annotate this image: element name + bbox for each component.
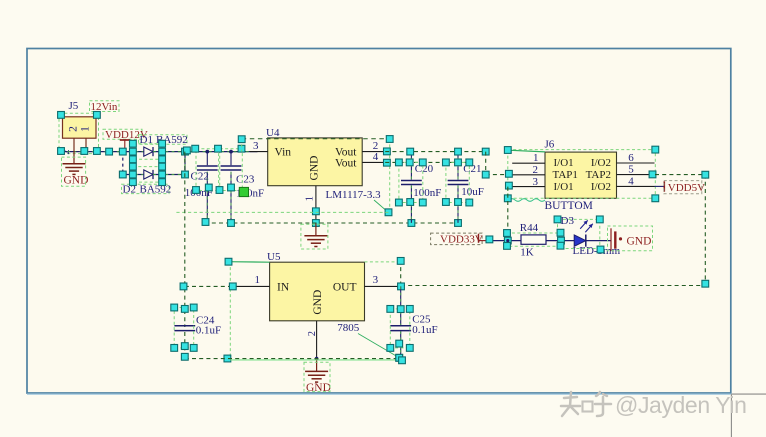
wire 3V3 row: [385, 151, 486, 153]
connector J6 body: [545, 152, 617, 198]
diode D1: [144, 147, 153, 156]
net label 12Vin: [90, 101, 120, 112]
wire handle at J6 feed: [482, 171, 489, 178]
ground rail handles: [202, 219, 209, 226]
svg-text:C22: C22: [191, 171, 209, 183]
svg-text:@Jayden Yin: @Jayden Yin: [615, 392, 746, 418]
wire J5 to diodes: [61, 151, 144, 153]
svg-text:BUTTOM: BUTTOM: [545, 200, 593, 212]
junction U5 pin2 bottom: [315, 357, 319, 361]
svg-text:1: 1: [305, 196, 316, 201]
wire D2 cathode: [153, 174, 185, 176]
svg-text:C23: C23: [236, 173, 255, 185]
C25 selection box: [390, 309, 410, 348]
power port VDD5V: [655, 185, 665, 187]
junction at R44 input: [506, 239, 509, 242]
C25 handles: [387, 306, 394, 313]
U5 selection handles: [225, 258, 232, 265]
sheet border: [27, 49, 731, 394]
connector J5 body: [63, 117, 97, 138]
C22 C23 selection boxes: [196, 149, 219, 191]
ground symbol below U5: [316, 359, 318, 372]
svg-text:BA592: BA592: [140, 183, 172, 195]
wire left rail vertical: [184, 152, 186, 327]
J6 pin lines left: [512, 162, 545, 164]
svg-text:VDD5V: VDD5V: [668, 182, 705, 194]
svg-text:R44: R44: [520, 222, 539, 234]
diode D2 label: [122, 184, 170, 193]
U4 pin 2 line: [362, 151, 385, 153]
wire R44 to LED: [546, 240, 574, 242]
svg-text:1: 1: [79, 126, 91, 132]
svg-text:TAP1: TAP1: [553, 169, 578, 181]
LED D3: [574, 235, 586, 246]
U4 pin 3 line: [250, 151, 268, 153]
svg-text:I/O1: I/O1: [554, 181, 574, 193]
svg-text:6: 6: [628, 152, 634, 164]
power port VDD12V label: [103, 129, 142, 139]
wire ground rail upper: [176, 211, 390, 213]
diode selection boxes: [133, 144, 162, 160]
svg-text:Vin: Vin: [275, 147, 292, 159]
svg-text:U4: U4: [266, 127, 280, 139]
U4 pointer line: [374, 200, 388, 212]
svg-text:I/O2: I/O2: [591, 181, 611, 193]
C24 handles: [171, 304, 178, 311]
capacitor C20: [410, 152, 412, 180]
svg-text:OUT: OUT: [333, 282, 357, 294]
wire branch down to D2: [122, 152, 124, 175]
diode D1 label: [139, 135, 188, 145]
diode selection handles: [119, 148, 126, 155]
svg-text:7805: 7805: [337, 322, 360, 334]
svg-text:I/O1: I/O1: [554, 157, 574, 169]
svg-text:VDD33V: VDD33V: [440, 234, 483, 246]
svg-text:U5: U5: [267, 251, 281, 263]
svg-text:2: 2: [67, 126, 79, 132]
U4 selection box: [242, 138, 390, 140]
J5 selection box: [59, 113, 99, 153]
U5 ground selection box: [304, 362, 330, 391]
regulator U5 body: [270, 262, 365, 321]
svg-text:TAP2: TAP2: [586, 169, 611, 181]
ground symbol below U4: [315, 223, 317, 236]
J5 selection handles: [58, 112, 65, 119]
wire down to J6 pin2: [485, 152, 487, 175]
wire C25 top stub: [400, 260, 402, 286]
U5 pin 1 wire: [233, 285, 270, 287]
svg-text:GND: GND: [627, 236, 652, 248]
J6 selection box: [508, 150, 656, 199]
svg-text:J6: J6: [545, 139, 555, 151]
ground symbol at J5: [73, 151, 75, 164]
svg-text:100nF: 100nF: [413, 187, 441, 199]
diode D2: [144, 170, 153, 179]
wire into D2: [123, 174, 144, 176]
C24 selection box: [174, 308, 194, 348]
power port GND bar right: [610, 228, 612, 251]
svg-text:D3: D3: [561, 215, 575, 227]
junction node B: [229, 150, 233, 154]
R44 selection box: [507, 233, 560, 246]
GND bar selection box: [608, 226, 653, 251]
svg-text:10uF: 10uF: [461, 186, 484, 198]
watermark: [561, 392, 611, 416]
wire 5V net: [655, 174, 705, 176]
capacitor C21: [457, 152, 459, 180]
GND selection box: [62, 157, 86, 186]
J6 pin lines right: [617, 162, 655, 164]
svg-text:Vout: Vout: [335, 158, 357, 170]
svg-text:1K: 1K: [520, 246, 534, 258]
capacitor C22: [206, 152, 208, 166]
regulator U4 body: [268, 138, 363, 186]
wavy line under J6: [509, 199, 545, 202]
U5 pin 3 wire: [365, 285, 402, 287]
wire D2 up to node: [184, 152, 186, 175]
capacitor C25: [400, 286, 402, 325]
LED arrows: [580, 220, 588, 228]
svg-text:GND: GND: [309, 156, 321, 181]
U5 pin 2 line: [316, 321, 318, 359]
svg-text:0.1uF: 0.1uF: [412, 324, 437, 336]
svg-text:0.1uF: 0.1uF: [196, 324, 221, 336]
wire VDD33V to R44: [489, 240, 521, 242]
U4 pin 4 line: [362, 161, 385, 163]
svg-text:1: 1: [533, 152, 539, 164]
svg-text:3: 3: [253, 140, 259, 152]
svg-text:IN: IN: [277, 282, 290, 294]
J5 pin stubs: [73, 138, 75, 151]
svg-text:5: 5: [628, 164, 634, 176]
U5 selection box: [229, 261, 270, 264]
5V net handles: [702, 171, 709, 178]
svg-text:J5: J5: [69, 100, 79, 112]
wire J6 pin3 down to R44 node: [507, 187, 509, 241]
R44 LED handles: [486, 236, 493, 243]
wire LED to GND: [586, 240, 611, 242]
wire bottom ground rail: [185, 358, 401, 360]
U5 pointer line: [358, 334, 399, 358]
svg-text:LM1117-3.3: LM1117-3.3: [326, 189, 382, 201]
svg-text:4: 4: [373, 151, 379, 163]
C22 C23 handles: [184, 147, 191, 154]
green vertex square: [239, 187, 248, 196]
svg-text:3: 3: [373, 274, 379, 286]
wire Vout4 row: [385, 161, 469, 163]
svg-text:GND: GND: [312, 290, 324, 315]
J6 selection handles: [504, 147, 511, 154]
svg-text:I/O2: I/O2: [591, 157, 611, 169]
wire ground rail lower: [205, 222, 461, 224]
U4 selection handles: [238, 136, 245, 143]
wire D1 cathode to node: [153, 151, 258, 153]
svg-text:GND: GND: [64, 174, 89, 186]
junction node A: [205, 150, 209, 154]
capacitor C24: [174, 325, 195, 327]
power port VDD12V bar: [120, 139, 130, 141]
capacitor C23: [230, 152, 232, 166]
U4 ground selection box: [301, 224, 328, 249]
power port VDD33V: [431, 233, 483, 245]
U4 pin 1 line: [315, 186, 317, 223]
svg-text:4: 4: [628, 175, 634, 187]
resistor R44: [521, 235, 546, 244]
U5 selection bottom green line: [230, 359, 399, 361]
C20 C21 handles: [407, 148, 414, 155]
C20 C21 selection boxes: [399, 162, 423, 202]
svg-text:1: 1: [255, 274, 261, 286]
D3 selection box: [558, 219, 600, 248]
sheet corner gray lines: [732, 393, 766, 395]
green wire at J6 top left: [508, 150, 545, 152]
